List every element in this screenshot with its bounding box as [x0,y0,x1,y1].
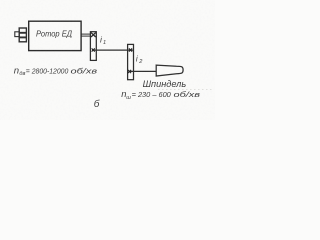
spindle leader dotted line [158,89,213,91]
left shaft end cap [15,32,19,37]
bearing block stripe 2 [19,36,26,38]
intermediate shaft wire (belt1 to belt2) [92,49,133,51]
spindle tapered body [156,65,183,76]
bearing block stripe 1 [19,32,26,34]
pulley fastening x, belt2 on intermediate shaft [129,48,132,51]
belt drive 1 rectangle [90,32,96,61]
pulley fastening x, belt1 on motor shaft [91,33,96,37]
pulley fastening x, belt1 on intermediate shaft [92,48,95,51]
motor shaft wire, lower line (rotor to belt 1) [81,35,90,37]
belt drive 2 rectangle [128,44,134,79]
left bearing block (laminated) [19,28,26,42]
motor shaft wire, upper line (rotor to belt 1) [81,33,90,35]
spindle shaft wire (belt2 to spindle) [129,70,157,72]
motor rotor box [29,21,81,50]
pulley fastening x, belt2 on spindle shaft [128,70,131,73]
